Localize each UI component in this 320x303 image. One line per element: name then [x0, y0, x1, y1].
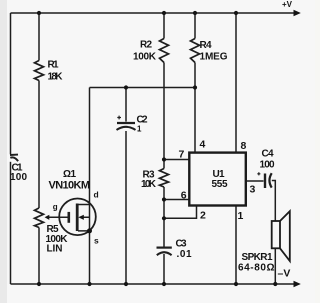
node R1 top rail [37, 11, 41, 15]
wire gate to R5 wiper [49, 216, 69, 218]
svg-text:R2: R2 [140, 40, 152, 51]
speaker SPKR1 [272, 211, 290, 261]
node R2 top rail [162, 11, 166, 15]
svg-text:R1: R1 [48, 60, 59, 71]
node pin2 C3 [162, 216, 166, 220]
resistor R3 [160, 169, 169, 188]
wire R2 top [163, 13, 165, 39]
wire top +V rail [11, 12, 296, 14]
wire R4 bottom to pin 4 [194, 63, 196, 153]
wire bottom -V rail [11, 283, 296, 285]
capacitor C3 [157, 248, 172, 256]
wire pin 6 [164, 199, 190, 201]
node C2 drain wire [124, 85, 128, 89]
wire C3 to bottom rail [163, 254, 165, 284]
svg-text:2: 2 [200, 210, 206, 222]
svg-text:3: 3 [250, 184, 256, 196]
node R4 drain wire [193, 85, 197, 89]
capacitor C2 [117, 116, 136, 130]
wire Q1 source vertical [89, 231, 91, 284]
svg-text:g: g [53, 203, 58, 212]
wire C2 branch lower [125, 131, 127, 284]
node pin6 R3 [162, 197, 166, 201]
svg-text:.1: .1 [137, 125, 142, 134]
wire pin 2 [164, 206, 197, 219]
svg-text:7: 7 [179, 149, 185, 161]
wire R2 bottom to R3 top [163, 63, 165, 169]
wire R1 to R5 middle segment [38, 81, 40, 209]
wire R3 bottom to C3 [163, 187, 165, 247]
node pin8 top rail [234, 11, 238, 15]
wire speaker to bottom rail [274, 248, 276, 284]
svg-text:s: s [94, 236, 99, 246]
capacitor C4 [257, 172, 271, 188]
svg-text:LIN: LIN [47, 244, 63, 255]
op-amp U1 (555 timer IC) [189, 153, 246, 206]
wire Q1 drain vertical [89, 88, 91, 205]
resistor R2 [160, 39, 169, 63]
wire R5 to bottom rail [38, 228, 40, 285]
node R4 top rail [193, 11, 197, 15]
svg-text:+V: +V [282, 0, 293, 9]
wire C2 branch upper [125, 88, 127, 122]
node C2 bottom rail [124, 282, 128, 286]
svg-text:6: 6 [181, 190, 187, 202]
resistor R4 [191, 39, 200, 63]
arrow +V rail [294, 10, 301, 17]
wiper arrow of R5 [45, 215, 50, 220]
wire pin 3 output [246, 180, 264, 182]
wire pin 7 [164, 159, 190, 161]
potentiometer R5 [35, 208, 44, 228]
svg-text:d: d [94, 190, 99, 200]
svg-text:R4: R4 [200, 40, 212, 51]
svg-text:VN10KM: VN10KM [49, 180, 91, 192]
wire pin 8 to top rail [235, 13, 237, 153]
resistor R1 [35, 61, 44, 81]
node pin7 R2/R3 [162, 157, 166, 161]
wire C4 to speaker [272, 181, 276, 222]
svg-text:64-80Ω: 64-80Ω [238, 263, 275, 274]
svg-text:SPKR1: SPKR1 [242, 252, 273, 263]
node R5 bottom rail [37, 282, 41, 286]
wire left supply branch (upper) [10, 13, 12, 154]
svg-text:C4: C4 [262, 149, 274, 160]
node speaker bottom rail [273, 282, 277, 286]
svg-text:1: 1 [238, 210, 244, 222]
svg-text:1MEG: 1MEG [200, 52, 228, 63]
wire R1/R5 branch upper [38, 13, 40, 61]
wire left supply branch (lower) [10, 162, 12, 284]
wire R4 top [194, 13, 196, 39]
svg-text:100K: 100K [133, 52, 157, 63]
wire pin 1 to bottom rail [235, 206, 237, 285]
svg-text:–V: –V [278, 268, 291, 280]
svg-text:8: 8 [241, 140, 247, 152]
wire drain node horizontal [90, 87, 196, 89]
svg-text:10K: 10K [141, 179, 157, 190]
svg-text:Ω1: Ω1 [63, 169, 76, 180]
svg-text:.01: .01 [177, 249, 192, 260]
svg-text:4: 4 [200, 139, 206, 151]
capacitor C1 [10, 155, 18, 162]
svg-text:555: 555 [212, 179, 228, 190]
svg-text:100: 100 [260, 160, 275, 171]
svg-text:100: 100 [10, 172, 27, 183]
node pin1 bottom rail [234, 282, 238, 286]
transistor Q1 [59, 199, 96, 236]
node source bottom rail [87, 282, 91, 286]
arrow -V rail [294, 281, 301, 288]
node C3 bottom rail [162, 282, 166, 286]
svg-text:18K: 18K [48, 72, 64, 83]
svg-text:C3: C3 [176, 239, 187, 250]
